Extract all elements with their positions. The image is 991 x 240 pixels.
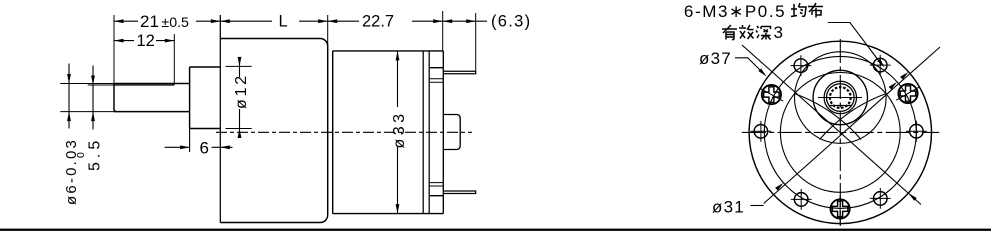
shaft circles [824,81,856,113]
dimension L [220,20,327,22]
wire: face vertical centerline [839,39,841,226]
inward arrow on diagonal B lower right at o37 circle [908,193,916,201]
drawing frame bottom border [0,229,991,231]
motor can o33 outline [333,51,444,214]
motor can rear rings [423,51,429,214]
diagonal construction line A [764,47,940,204]
inner case circle [780,72,900,192]
svg-text:0: 0 [75,152,87,158]
M3 hole 5 [791,189,812,210]
output shaft boss o12 (face) [813,70,867,124]
dimension o6 shaft dia [68,64,70,129]
motor front face [332,51,334,214]
M3 hole 2 [870,55,891,76]
motor screw 1 [831,195,850,222]
outward arrows on diagonal A [900,72,908,80]
dimension (6.3) [443,20,487,22]
label o31 leader [750,205,763,207]
bolt circle o31 [764,56,916,208]
shaft flat chord [829,105,851,107]
leader from M3 note to hole [828,23,882,66]
M3 hole 3 [791,55,812,76]
dimension 21+-0.5 [114,20,220,22]
output shaft (side view) [114,84,190,112]
M3 hole 4 [751,121,772,142]
M3 hole 1 [906,121,927,142]
wing arc left [795,94,861,140]
diagonal construction line B [742,45,921,205]
svg-text:(6.3): (6.3) [491,13,531,31]
svg-text:6: 6 [200,139,209,158]
shaft center cross tick [818,97,862,99]
motor screw 2 [760,85,784,104]
gearbox housing (side view) [220,39,327,223]
dimension 5.5 flat [92,66,94,130]
svg-text:3: 3 [774,23,783,42]
svg-text:6-M3∗P0.5: 6-M3∗P0.5 [684,2,786,21]
dimension 6 boss length [165,129,233,153]
label effective depth 3 [722,25,737,40]
svg-text:22.7: 22.7 [362,13,394,31]
svg-text:ø33: ø33 [391,110,408,148]
rear bearing bump [443,115,460,150]
svg-text:5.5: 5.5 [87,137,104,171]
motor screw 3 [896,84,919,103]
wire: top extension lines [114,11,476,85]
wing arc right [820,94,886,140]
terminal tab top [443,71,475,74]
wire: face horizontal centerline [742,131,939,133]
motor endcap [429,68,443,196]
wire: shaft tip extension lines [60,84,114,112]
gearbox flange circle o37 [749,41,931,223]
svg-text:L: L [279,13,288,31]
dimension o33 [397,51,399,214]
terminal tab bottom [443,191,475,194]
svg-text:21±0.5: 21±0.5 [140,12,189,31]
svg-text:ø12: ø12 [233,73,250,109]
svg-text:ø6-0.03: ø6-0.03 [63,138,80,205]
dimension o12 [226,66,252,128]
M3 hole 6 [870,188,891,209]
boss circle around shaft [795,52,887,144]
label o37 leader [735,58,764,74]
svg-text:12: 12 [137,32,155,50]
bearing boss o12 (side view) [190,67,221,129]
dimension 22.7 [328,20,443,22]
svg-text:ø37: ø37 [699,49,732,68]
wire: motor axis centerline [216,131,472,133]
svg-text:ø31: ø31 [712,198,745,217]
shaft flat line [114,84,174,86]
dimension 12 [114,40,174,42]
